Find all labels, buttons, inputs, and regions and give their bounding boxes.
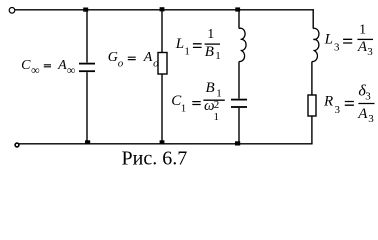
capacitor C-inf <box>79 64 95 72</box>
svg-text:2: 2 <box>214 99 220 111</box>
node junction top 2 <box>160 7 165 11</box>
svg-text:L: L <box>175 36 184 52</box>
capacitor C1 <box>231 100 247 107</box>
wire top rail <box>15 9 314 11</box>
svg-text:L: L <box>324 31 333 47</box>
label R3 = d3/A3 <box>323 82 375 125</box>
wire right branch middle <box>311 62 313 96</box>
inductor L1 <box>239 28 246 61</box>
svg-text:1: 1 <box>184 45 190 57</box>
wire branch3 lower <box>238 108 240 144</box>
node junction bottom 3 <box>235 141 240 145</box>
svg-text:3: 3 <box>334 42 340 54</box>
node junction bottom 1 <box>85 140 90 144</box>
wire branch1 lower <box>86 72 88 144</box>
wire branch3 middle <box>238 62 240 99</box>
terminal bottom-left <box>15 143 19 147</box>
node junction top 3 <box>235 7 240 11</box>
svg-text:o: o <box>118 58 124 70</box>
wire right branch upper <box>312 9 314 28</box>
wire branch1 upper <box>86 10 88 63</box>
wire bottom rail <box>19 143 313 145</box>
svg-text:3: 3 <box>367 46 373 58</box>
svg-text:1: 1 <box>215 50 221 62</box>
inductor L3 <box>312 28 319 61</box>
label C-inf = A-inf <box>21 58 75 77</box>
svg-text:B: B <box>206 80 215 96</box>
node junction bottom 2 <box>160 140 165 144</box>
svg-text:1: 1 <box>214 111 220 123</box>
svg-text:∞: ∞ <box>67 63 76 77</box>
wire branch2 upper <box>161 10 163 53</box>
svg-text:1: 1 <box>181 103 187 115</box>
label L3 = 1/A3 <box>324 23 374 58</box>
resistor R3 <box>308 95 316 116</box>
wire right branch lower <box>311 116 313 144</box>
svg-text:3: 3 <box>335 104 341 116</box>
svg-text:∞: ∞ <box>31 63 40 77</box>
svg-text:Рис. 6.7: Рис. 6.7 <box>122 147 188 169</box>
svg-text:C: C <box>21 58 31 73</box>
svg-text:A: A <box>57 58 67 73</box>
label C1 = B1/w1^2 <box>171 80 225 123</box>
svg-text:o: o <box>153 58 159 70</box>
svg-text:A: A <box>357 106 368 122</box>
svg-text:1: 1 <box>216 88 222 100</box>
node junction top 1 <box>83 8 88 12</box>
svg-text:B: B <box>205 44 214 60</box>
svg-text:A: A <box>357 39 368 55</box>
svg-text:1: 1 <box>359 23 366 38</box>
wire branch3 upper <box>238 10 240 29</box>
label L1 = 1/B1 <box>175 27 221 62</box>
svg-text:G: G <box>108 50 118 65</box>
label G0 = A0 <box>108 50 159 70</box>
wire branch2 lower <box>161 74 163 144</box>
svg-text:1: 1 <box>207 27 214 42</box>
resistor G0 <box>158 53 167 75</box>
svg-text:R: R <box>323 94 333 110</box>
terminal top-left <box>9 8 15 14</box>
svg-text:3: 3 <box>368 113 374 125</box>
svg-text:A: A <box>143 50 153 65</box>
svg-text:3: 3 <box>365 90 371 102</box>
